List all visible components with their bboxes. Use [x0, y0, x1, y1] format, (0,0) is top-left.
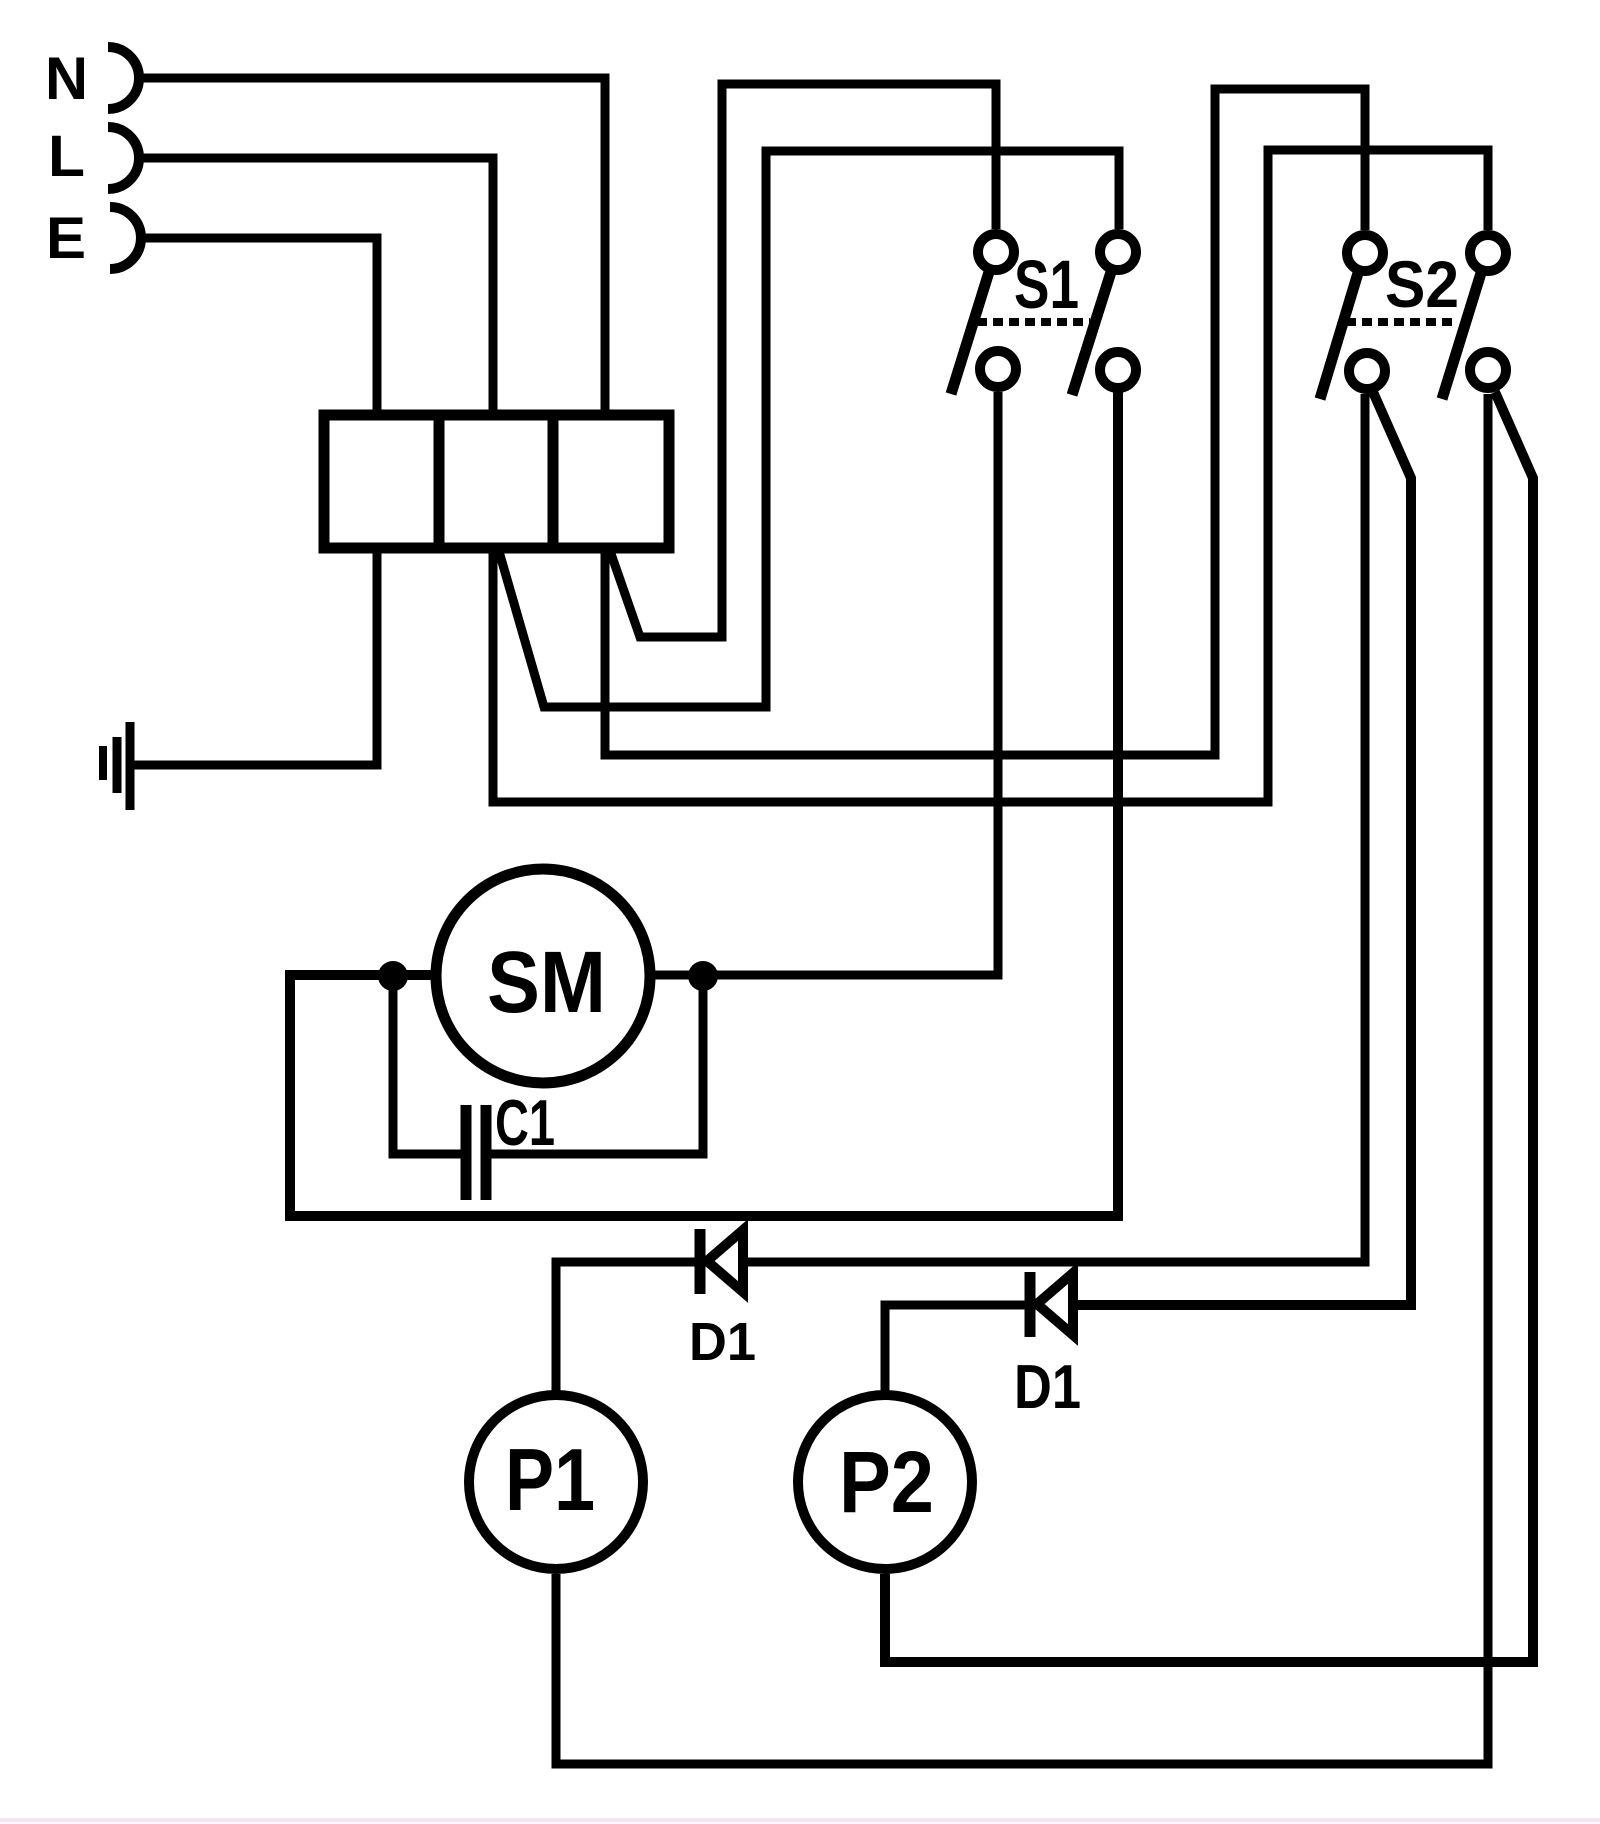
wire E to terminal block cell 1: [142, 238, 377, 415]
wire SM right terminal to capacitor C1 right plate: [491, 976, 703, 1154]
svg-text:N: N: [45, 45, 88, 112]
svg-text:C1: C1: [495, 1086, 555, 1159]
wire SM left terminal to capacitor C1 left plate: [393, 976, 461, 1154]
diode D1 (left): [700, 1229, 743, 1294]
svg-text:P2: P2: [839, 1434, 934, 1531]
junction dot right of SM: [688, 961, 718, 991]
switch S2: [1320, 235, 1506, 399]
wire S2 bottom-left lever to diode D1 (right) cathode: [1075, 392, 1411, 1305]
svg-text:E: E: [46, 206, 86, 271]
ground: [103, 722, 130, 810]
terminal L arc: [108, 127, 139, 189]
svg-text:S1: S1: [1014, 246, 1079, 323]
terminal block TB1: [324, 415, 669, 548]
motor SM: [436, 869, 650, 1083]
lamp P2: [798, 1395, 972, 1569]
svg-text:SM: SM: [487, 934, 606, 1031]
wire terminal block cell 3 to S2 top-left: [605, 89, 1365, 755]
wire L to terminal block cell 2: [140, 158, 493, 415]
wire N to terminal block cell 3: [140, 78, 605, 415]
wire terminal block cell 2 to S2 top-right: [493, 150, 1488, 802]
junction dot left of SM: [378, 961, 408, 991]
svg-text:D1: D1: [1014, 1353, 1081, 1422]
wire terminal block cell 2 to S1 top-right: [498, 151, 1119, 707]
capacitor C1: [466, 1105, 486, 1200]
wire S1 bottom-right to motor SM left terminal: [290, 392, 1118, 1216]
wire lamp P1 bottom to S2 bottom-right: [556, 394, 1488, 1764]
switch S1: [951, 234, 1136, 395]
svg-text:S2: S2: [1385, 247, 1459, 321]
scan artifact strip at bottom: [0, 1818, 1600, 1822]
wire S1 bottom-left to motor SM right terminal: [655, 392, 998, 975]
wire terminal block cell 3 to S1 top-left: [609, 84, 996, 637]
terminal N arc: [108, 47, 139, 109]
diode D1 (right): [1030, 1272, 1073, 1337]
wire diode D1 (right) anode to lamp P2 top: [885, 1305, 1025, 1392]
terminal E arc: [110, 207, 141, 269]
svg-text:P1: P1: [505, 1430, 595, 1529]
svg-text:L: L: [48, 124, 85, 189]
lamp P1: [469, 1395, 643, 1569]
svg-text:D1: D1: [689, 1312, 756, 1372]
wire S2 bottom-left to diode D1 cathode: [745, 394, 1365, 1262]
wire lamp P2 bottom to S2 bottom-right lever: [885, 392, 1533, 1662]
wire diode D1 anode to lamp P1 top: [556, 1262, 695, 1392]
wire ground to terminal block cell 1: [134, 548, 377, 765]
